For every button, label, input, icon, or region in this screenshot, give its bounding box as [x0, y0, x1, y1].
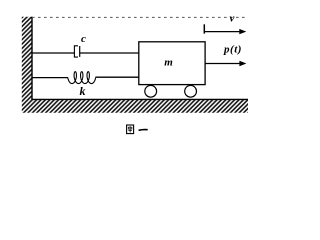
velocity arrow tick [203, 24, 205, 33]
svg-text:p(t): p(t) [223, 44, 242, 56]
svg-text:v: v [230, 12, 235, 24]
wheel right [185, 85, 197, 97]
dashed reference line [32, 16, 247, 18]
wall hatch [22, 17, 248, 113]
floor top line [31, 98, 248, 100]
spring coil k [68, 72, 96, 84]
damper piston [79, 46, 81, 57]
damper rod right [80, 52, 139, 54]
damper rod left [33, 52, 75, 54]
caption glyph tu (figure) [127, 125, 134, 134]
wall right edge line [31, 17, 33, 100]
svg-text:k: k [80, 84, 86, 98]
spring rod right [95, 76, 138, 78]
velocity arrowhead [239, 29, 246, 34]
force arrowhead [239, 61, 246, 66]
svg-text:c: c [81, 33, 86, 45]
velocity arrow shaft [204, 31, 240, 33]
caption stroke one [139, 129, 148, 132]
wheel left [145, 85, 157, 97]
mass block m [139, 42, 205, 85]
spring rod left [33, 77, 69, 79]
force arrow shaft p(t) [205, 63, 240, 65]
svg-text:m: m [164, 57, 173, 69]
damper cylinder [74, 46, 78, 57]
